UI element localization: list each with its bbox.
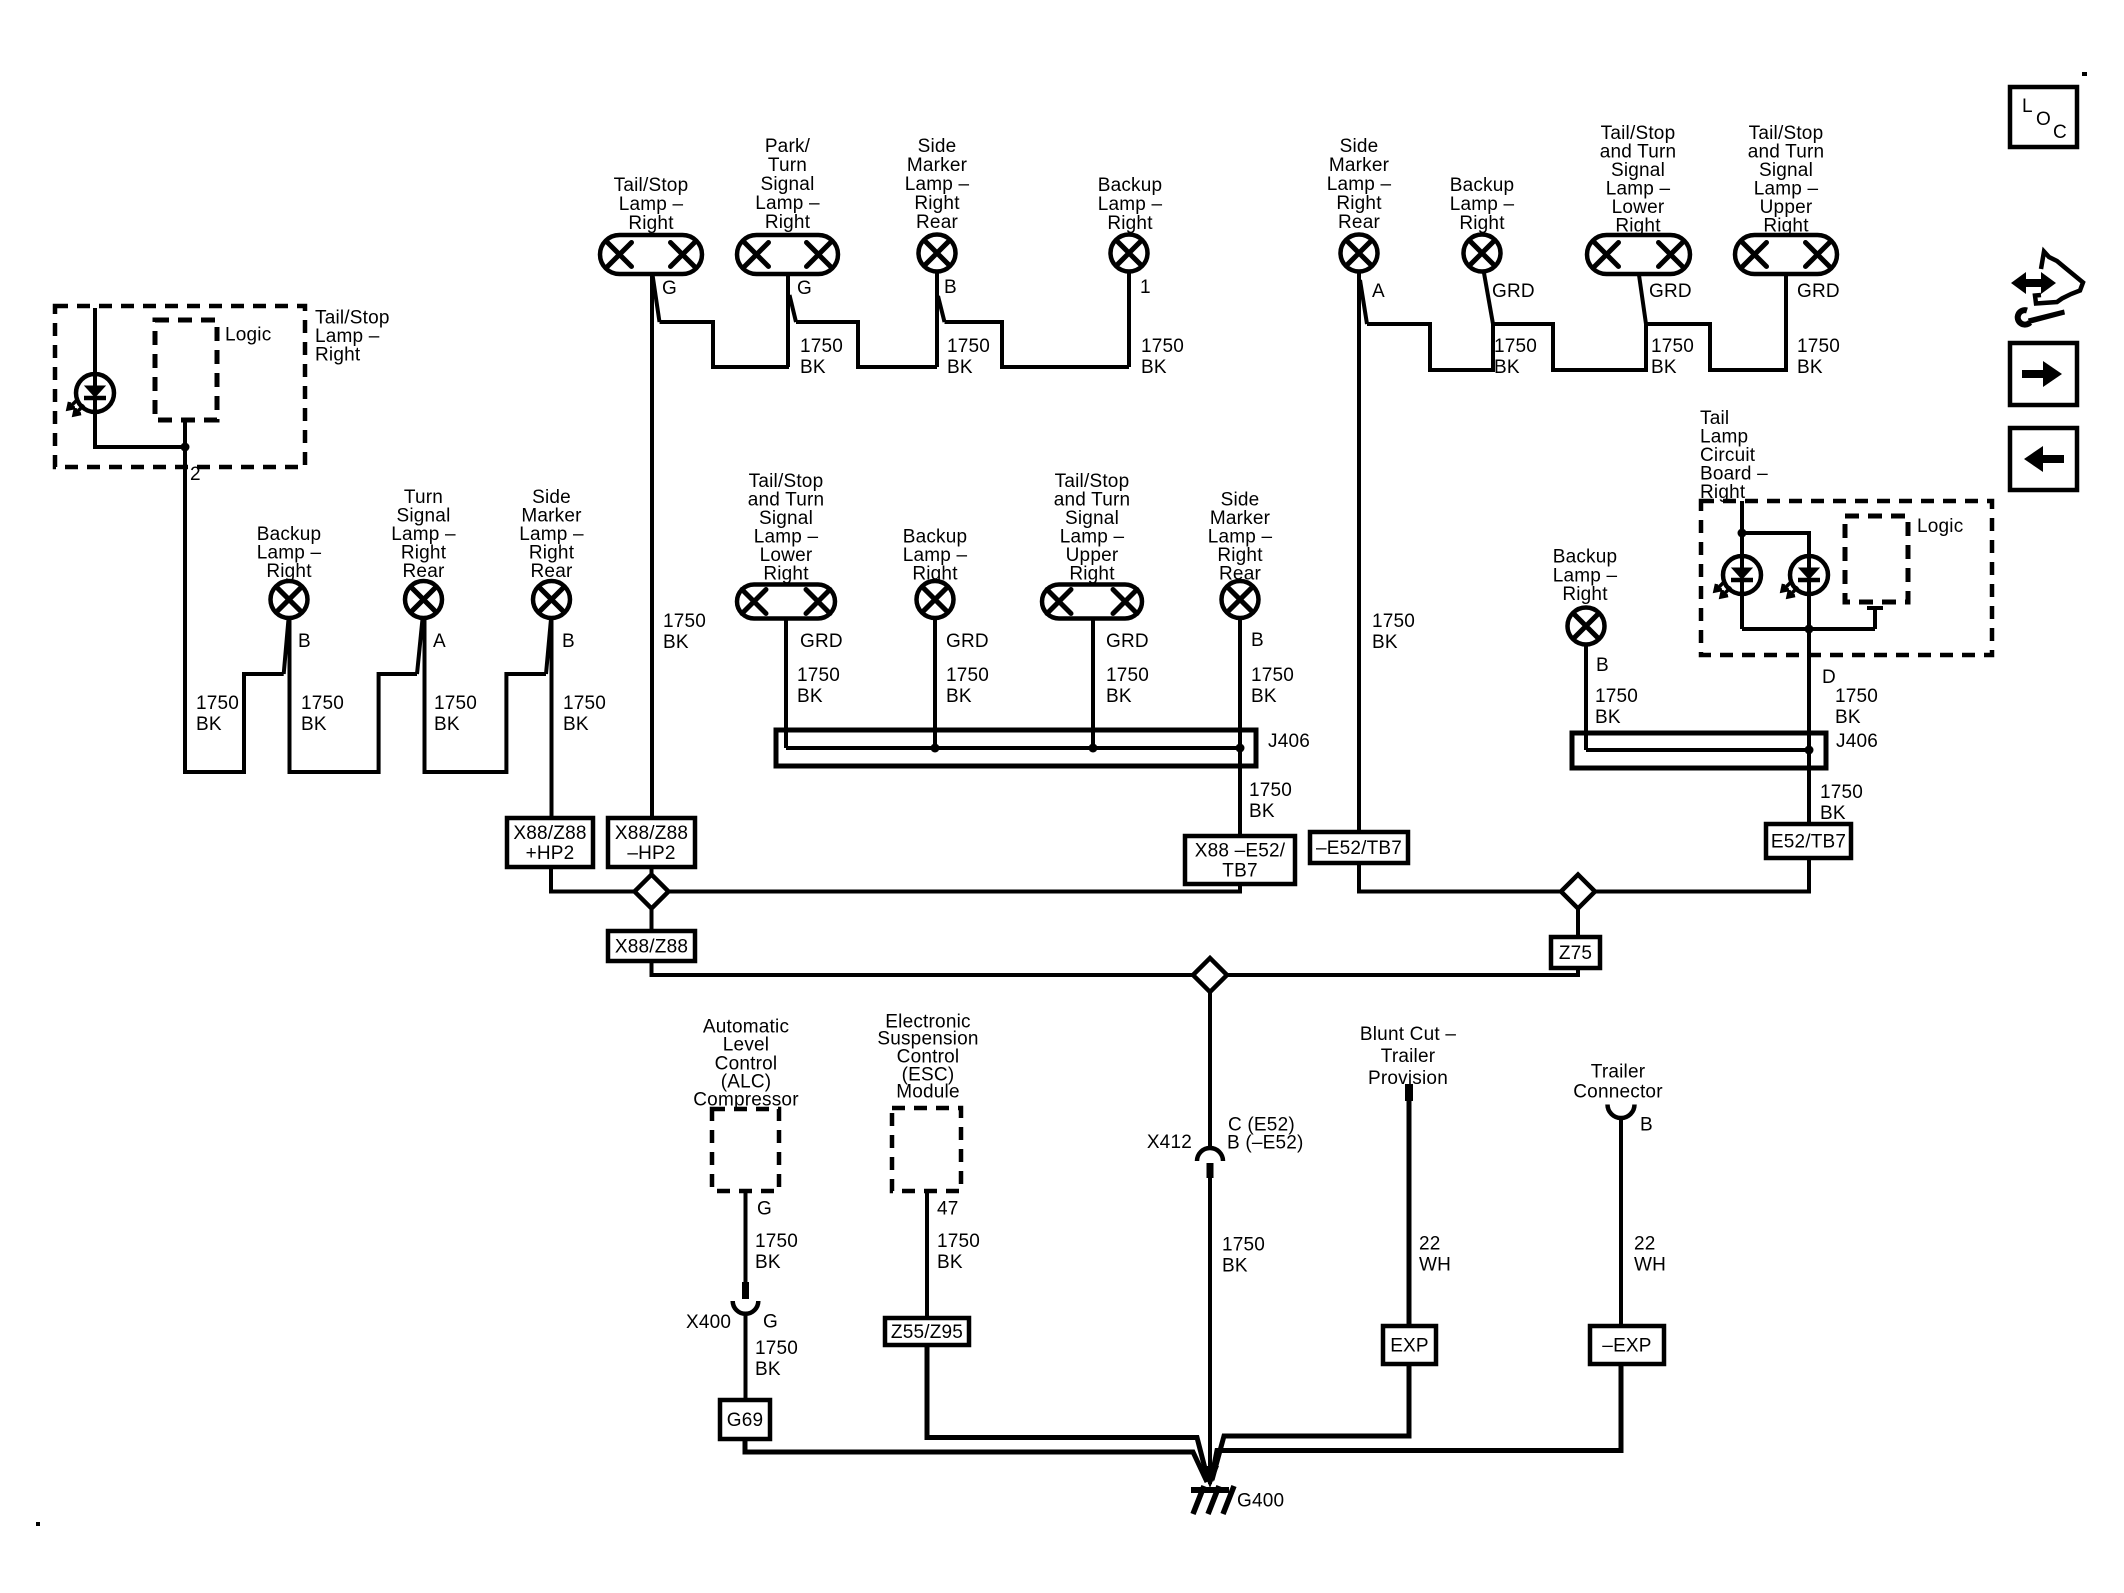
splice diamond splice diamond center — [1193, 958, 1227, 992]
trailer connector socket — [1608, 1105, 1635, 1119]
svg-text:1750: 1750 — [1651, 336, 1694, 357]
svg-text:BK: BK — [1651, 357, 1677, 378]
svg-text:BK: BK — [947, 357, 973, 378]
wire X88/Z88 to bottom bus — [652, 961, 1194, 975]
lamp Backup Lamp - Right (mid right) (circle-X bulb) — [1568, 608, 1605, 645]
lamp Tail/Stop Lamp - Right (dual-filament stadium bulb) — [600, 235, 702, 274]
svg-text:Z55/Z95: Z55/Z95 — [891, 1322, 963, 1343]
label: Tail/Stop and Turn Signal Lamp - Lower Right (top) — [1600, 123, 1677, 237]
svg-text:1750: 1750 — [947, 336, 990, 357]
label: Electronic Suspension Control (ESC) Module — [877, 1012, 978, 1103]
svg-text:BK: BK — [1249, 801, 1275, 822]
svg-text:+HP2: +HP2 — [526, 843, 575, 864]
svg-text:Backup: Backup — [1553, 547, 1618, 568]
label: pin B (-E52) — [1227, 1133, 1304, 1154]
connector box Z75 — [1551, 937, 1600, 968]
svg-text:G400: G400 — [1237, 1491, 1284, 1512]
label: pin GRD — [800, 631, 843, 652]
wire board bottom bus — [1742, 627, 1875, 631]
junction node at logic output — [181, 443, 190, 452]
wire chain 7-8 — [1646, 274, 1786, 370]
wire Z55 ground bus — [927, 1345, 1208, 1480]
lamp Side Marker Lamp - Right Rear (mid) (circle-X bulb) — [1222, 581, 1259, 618]
svg-text:Level: Level — [723, 1035, 769, 1056]
label: pin GRD — [1649, 281, 1692, 302]
wire trailer lead — [1619, 1118, 1623, 1327]
wire gauge/color label 1750 BK (backup mid right) — [1595, 686, 1638, 728]
junction J406 right splice — [1805, 746, 1814, 755]
svg-text:1750: 1750 — [1820, 782, 1863, 803]
wire gauge/color label 1750 BK (below J406 left) — [1249, 780, 1292, 822]
wire center diamond to X412 — [1208, 992, 1212, 1148]
wire Backup-B lead — [290, 618, 418, 772]
svg-text:B: B — [1251, 630, 1264, 651]
wire Backup-GRD lead — [933, 618, 937, 748]
wire gauge/color label 1750 BK (backup mid) — [946, 665, 989, 707]
svg-text:WH: WH — [1419, 1255, 1451, 1276]
blunt cut terminal stub — [1405, 1084, 1413, 1101]
svg-text:Right: Right — [1562, 584, 1608, 605]
svg-text:Z75: Z75 — [1559, 943, 1592, 964]
lamp Tail/Stop and Turn Signal Lamp - Lower Right (top) (dual-filament stadium bulb) — [1587, 235, 1690, 274]
connector box X88 -E52/TB7 — [1185, 836, 1295, 884]
wire gauge/color label 1750 BK (park/turn) — [800, 336, 843, 378]
wire chain jog A — [1360, 280, 1367, 324]
wire TurnSignal-A lead — [425, 618, 547, 772]
wire -HP2 to diamond — [650, 867, 654, 875]
label: pin G — [662, 278, 677, 299]
wire Backup-B lead to J406 right — [1584, 644, 1588, 750]
svg-text:BK: BK — [1494, 357, 1520, 378]
svg-text:Logic: Logic — [225, 325, 271, 346]
svg-text:Right: Right — [1069, 564, 1115, 585]
LOC reference box — [2010, 87, 2077, 147]
svg-text:GRD: GRD — [1797, 281, 1840, 302]
wire chain 6-7 — [1493, 324, 1646, 370]
label: pin GRD — [1106, 631, 1149, 652]
svg-text:1750: 1750 — [1141, 336, 1184, 357]
label: J406 (right) — [1836, 731, 1878, 752]
label: Tail Lamp Circuit Board - Right — [1700, 408, 1768, 503]
svg-text:1750: 1750 — [1106, 665, 1149, 686]
label: Logic (left) — [225, 325, 271, 346]
wire LED1 drop — [1740, 533, 1744, 556]
svg-text:2: 2 — [190, 464, 201, 485]
label: pin B — [1251, 630, 1264, 651]
svg-text:Trailer: Trailer — [1591, 1062, 1646, 1083]
label: Park/Turn Signal Lamp - Right — [755, 136, 820, 233]
diagnostic icon: double arrow, body outline, wrench — [2011, 252, 2083, 325]
svg-text:X400: X400 — [686, 1312, 731, 1333]
svg-text:B: B — [1640, 1115, 1653, 1136]
svg-text:Right: Right — [1336, 193, 1382, 214]
label: pin GRD — [1492, 281, 1535, 302]
svg-text:–HP2: –HP2 — [627, 843, 675, 864]
svg-text:Signal: Signal — [760, 174, 814, 195]
wire gauge/color label 1750 BK (tail/stop) — [663, 611, 706, 653]
wire gauge/color label 1750 BK (lower GRD) — [1651, 336, 1694, 378]
svg-text:Module: Module — [896, 1082, 960, 1103]
wire chain 2-3 — [796, 322, 937, 367]
wire Backup lead — [1127, 271, 1131, 367]
svg-text:BK: BK — [755, 1359, 781, 1380]
label: Side Marker Lamp - Right Rear (mid) — [1208, 490, 1273, 585]
label: X412 — [1147, 1132, 1192, 1153]
splice diamond splice diamond left — [635, 875, 669, 909]
wire E52/TB7 to bus — [1595, 858, 1809, 892]
svg-text:B: B — [562, 631, 575, 652]
wire gauge/color label 22 WH (trailer) — [1634, 1234, 1666, 1276]
LED D1 (tail/stop LED) — [68, 374, 114, 415]
svg-text:BK: BK — [1797, 357, 1823, 378]
in-line connector X400 — [733, 1282, 759, 1314]
connector box -E52/TB7 — [1310, 832, 1408, 863]
svg-text:1750: 1750 — [1249, 780, 1292, 801]
lamp Tail/Stop and Turn Signal Lamp - Upper Right (mid) (dual-filament stadium bulb) — [1042, 585, 1142, 619]
wire SideMarker-A long lead to -E52/TB7 — [1357, 271, 1361, 832]
wire SideMarker-B lead to +HP2 — [550, 618, 554, 818]
label: Side Marker Lamp - Right Rear (right top) — [1327, 136, 1392, 233]
label: pin 2 — [190, 464, 201, 485]
svg-text:B (–E52): B (–E52) — [1227, 1133, 1304, 1154]
wire diag to Lower stadium — [1639, 275, 1646, 324]
svg-text:BK: BK — [1222, 1256, 1248, 1277]
svg-text:BK: BK — [800, 357, 826, 378]
wire gauge/color label 1750 BK (backup B) — [301, 693, 344, 735]
svg-text:1750: 1750 — [1494, 336, 1537, 357]
wire gauge/color label 1750 BK (pin2 wire) — [196, 693, 239, 735]
LED D2 (tail LED 1) — [1715, 556, 1761, 597]
svg-text:Tail/Stop: Tail/Stop — [614, 175, 689, 196]
svg-text:Right: Right — [315, 345, 361, 366]
label: pin B — [298, 631, 311, 652]
label: Turn Signal Lamp - Right Rear — [391, 487, 456, 582]
lamp Backup Lamp - Right (right top) (circle-X bulb) — [1464, 235, 1501, 272]
wire gauge/color label 1750 BK (turn A) — [434, 693, 477, 735]
svg-text:Lamp –: Lamp – — [905, 174, 970, 195]
label: pin GRD — [1797, 281, 1840, 302]
lamp Park/Turn Signal Lamp - Right (dual-filament stadium bulb) — [737, 235, 838, 274]
svg-text:EXP: EXP — [1390, 1336, 1429, 1357]
svg-text:Right: Right — [1459, 213, 1505, 234]
svg-text:1750: 1750 — [663, 611, 706, 632]
ALC Compressor dashed box — [712, 1109, 779, 1191]
svg-text:1750: 1750 — [196, 693, 239, 714]
connector box -EXP — [1590, 1326, 1664, 1364]
svg-text:–E52/TB7: –E52/TB7 — [1316, 838, 1402, 859]
svg-text:1750: 1750 — [1251, 665, 1294, 686]
ground convergence arrowhead — [1201, 1466, 1219, 1488]
wire chain 5-6 — [1367, 324, 1493, 370]
svg-text:C: C — [2053, 122, 2067, 143]
svg-text:Marker: Marker — [1329, 155, 1390, 176]
svg-text:G69: G69 — [727, 1410, 764, 1431]
wire LED1 out — [1740, 594, 1744, 629]
lamp Side Marker Lamp - Right Rear (right top) (circle-X bulb) — [1341, 235, 1378, 272]
svg-text:D: D — [1822, 667, 1836, 688]
svg-text:TB7: TB7 — [1222, 861, 1257, 882]
svg-text:1750: 1750 — [755, 1338, 798, 1359]
svg-text:GRD: GRD — [1649, 281, 1692, 302]
svg-text:Connector: Connector — [1573, 1082, 1663, 1103]
wire LED cathode to node — [95, 411, 185, 447]
logic block inner dashed box (right) — [1845, 516, 1908, 602]
junction J406 splice 2 — [1089, 744, 1098, 753]
wire gauge/color label 1750 BK (side marker) — [947, 336, 990, 378]
wire ESC lead — [925, 1191, 929, 1318]
junction J406 splice 3 — [1236, 744, 1245, 753]
wire D lead to J406 right — [1807, 594, 1811, 824]
svg-text:G: G — [797, 278, 812, 299]
svg-text:Park/: Park/ — [765, 136, 811, 157]
label: pin C (E52) — [1228, 1115, 1295, 1136]
wire gauge/color label 1750 BK (upper mid) — [1106, 665, 1149, 707]
wire SideMarker-B lead through J406 — [1238, 618, 1242, 836]
navigation left-arrow box — [2010, 428, 2077, 490]
svg-text:BK: BK — [755, 1252, 781, 1273]
label: Backup Lamp - Right (top) — [1098, 175, 1163, 234]
svg-text:X88/Z88: X88/Z88 — [615, 823, 688, 844]
label: Backup Lamp - Right (mid right) — [1553, 547, 1618, 606]
svg-text:BK: BK — [937, 1252, 963, 1273]
wire gauge/color label 1750 BK (marker A long) — [1372, 611, 1415, 653]
Tail/Stop Lamp - Right LED module outer dashed box — [55, 306, 305, 467]
label: pin D — [1822, 667, 1836, 688]
wire Lower-GRD lead — [784, 619, 788, 749]
label: pin G (X400) — [763, 1312, 778, 1333]
wire gauge/color label 1750 BK (upper GRD) — [1797, 336, 1840, 378]
label: pin B — [944, 277, 957, 298]
svg-text:WH: WH — [1634, 1255, 1666, 1276]
label: Tail/Stop and Turn Signal Lamp - Upper Right (mid) — [1054, 471, 1131, 585]
wire SideMarker lead — [935, 271, 939, 367]
label: Tail/Stop Lamp - Right (module name) — [315, 308, 390, 366]
svg-text:O: O — [2036, 109, 2051, 130]
svg-text:BK: BK — [1835, 707, 1861, 728]
svg-text:Rear: Rear — [916, 212, 958, 233]
svg-text:1750: 1750 — [1595, 686, 1638, 707]
svg-text:X88 –E52/: X88 –E52/ — [1195, 841, 1286, 862]
wire ALC lead — [744, 1191, 748, 1282]
label: pin A — [1372, 281, 1385, 302]
wire chain jog 3 — [938, 296, 945, 322]
svg-text:1750: 1750 — [800, 336, 843, 357]
svg-text:E52/TB7: E52/TB7 — [1771, 832, 1846, 853]
wire gauge/color label 1750 BK (marker B) — [563, 693, 606, 735]
svg-text:Logic: Logic — [1917, 516, 1963, 537]
wire board bridge — [1742, 533, 1809, 556]
junction board node D — [1805, 625, 1814, 634]
svg-text:GRD: GRD — [946, 631, 989, 652]
label: Blunt Cut - Trailer Provision — [1360, 1024, 1456, 1089]
wire board feed — [1740, 501, 1744, 533]
svg-text:BK: BK — [946, 686, 972, 707]
svg-text:BK: BK — [196, 714, 222, 735]
label: pin GRD — [946, 631, 989, 652]
wire gauge/color label 22 WH (blunt cut) — [1419, 1234, 1451, 1276]
svg-text:J406: J406 — [1836, 731, 1878, 752]
lamp Backup Lamp - Right (top) (circle-X bulb) — [1111, 235, 1148, 272]
wire gauge/color label 1750 BK (backup GRD) — [1494, 336, 1537, 378]
wire gauge/color label 1750 BK (X400-G69) — [755, 1338, 798, 1380]
svg-text:Turn: Turn — [768, 155, 807, 176]
svg-text:G: G — [757, 1199, 772, 1220]
svg-text:1750: 1750 — [755, 1231, 798, 1252]
wire inner bus corner — [784, 733, 788, 748]
lamp Tail/Stop and Turn Signal Lamp - Lower Right (mid) (dual-filament stadium bulb) — [737, 585, 835, 619]
junction J406 splice 1 — [931, 744, 940, 753]
wire +HP2 to bus — [551, 867, 635, 892]
wire diag to Side Marker Lamp — [546, 619, 551, 674]
connector box G69 — [720, 1400, 770, 1439]
svg-text:Backup: Backup — [1098, 175, 1163, 196]
logic stub cap — [1867, 606, 1883, 610]
wire gauge/color label 1750 BK (ESC) — [937, 1231, 980, 1273]
svg-text:1750: 1750 — [1222, 1235, 1265, 1256]
svg-text:–EXP: –EXP — [1602, 1336, 1651, 1357]
splice pack J406 (left) — [776, 730, 1256, 766]
label: G400 — [1237, 1491, 1284, 1512]
wire blunt cut lead — [1407, 1100, 1412, 1326]
label: pin 47 — [937, 1199, 959, 1220]
svg-text:BK: BK — [1820, 803, 1846, 824]
svg-text:BK: BK — [1106, 686, 1132, 707]
svg-text:J406: J406 — [1268, 731, 1310, 752]
wire diag to Turn Signal Lamp — [417, 619, 423, 674]
lamp Side Marker Lamp - Right Rear (left) (circle-X bulb) — [533, 581, 570, 618]
label: Side Marker Lamp - Right Rear (left) — [519, 487, 584, 582]
wire trailer ground bus — [1211, 1364, 1621, 1481]
wire chain jog 2 — [790, 295, 797, 322]
wire bus to X88-E52/TB7 — [669, 884, 1241, 892]
svg-text:GRD: GRD — [1106, 631, 1149, 652]
wire gauge/color label 1750 BK (marker mid) — [1251, 665, 1294, 707]
svg-text:Trailer: Trailer — [1381, 1046, 1436, 1067]
lamp Tail/Stop and Turn Signal Lamp - Upper Right (top) (dual-filament stadium bulb) — [1735, 235, 1837, 274]
wire gauge/color label 1750 BK (lower mid) — [797, 665, 840, 707]
label: pin G (ALC) — [757, 1199, 772, 1220]
label: Backup Lamp - Right (left) — [257, 524, 322, 582]
svg-text:Side: Side — [918, 136, 957, 157]
svg-text:BK: BK — [797, 686, 823, 707]
svg-text:BK: BK — [1141, 357, 1167, 378]
svg-text:BK: BK — [301, 714, 327, 735]
wire gauge/color label 1750 BK (below J406 right) — [1820, 782, 1863, 824]
wire gauge/color label 1750 BK (D wire) — [1835, 686, 1878, 728]
connector box Z55/Z95 — [885, 1318, 969, 1345]
wire EXP ground bus — [1212, 1364, 1409, 1480]
lamp Backup Lamp - Right (left) (circle-X bulb) — [271, 581, 308, 618]
wire gauge/color label 1750 BK (backup 1) — [1141, 336, 1184, 378]
ground symbol G400 — [1191, 1486, 1234, 1514]
label: pin 1 — [1140, 277, 1151, 298]
label: pin A — [433, 631, 446, 652]
svg-text:L: L — [2022, 96, 2033, 117]
label: Tail/Stop and Turn Signal Lamp - Upper Right (top) — [1748, 123, 1825, 237]
ESC Module dashed box — [892, 1108, 961, 1191]
wire diamond to X88/Z88 box — [650, 909, 654, 932]
connector box X88/Z88 +HP2 — [507, 818, 593, 867]
svg-text:Lamp –: Lamp – — [755, 193, 820, 214]
label: Trailer Connector — [1573, 1062, 1663, 1103]
wire gauge/color label 1750 BK (ALC) — [755, 1231, 798, 1273]
label: pin B — [562, 631, 575, 652]
wire LED top lead — [93, 308, 97, 375]
wire X400 to G69 — [744, 1314, 748, 1400]
svg-text:BK: BK — [663, 632, 689, 653]
svg-text:1: 1 — [1140, 277, 1151, 298]
svg-text:GRD: GRD — [1492, 281, 1535, 302]
svg-text:Backup: Backup — [1450, 175, 1515, 196]
label: Tail/Stop and Turn Signal Lamp - Lower Right (mid) — [748, 471, 825, 585]
svg-text:1750: 1750 — [1372, 611, 1415, 632]
label: pin G — [797, 278, 812, 299]
wire Upper-GRD lead — [1091, 619, 1095, 749]
svg-text:Right: Right — [1107, 213, 1153, 234]
junction board node A — [1738, 529, 1747, 538]
svg-text:GRD: GRD — [800, 631, 843, 652]
wire -E52/TB7 to bus — [1359, 863, 1561, 892]
lamp Side Marker Lamp - Right Rear (top) (circle-X bulb) — [919, 235, 956, 272]
speck bottom left — [36, 1522, 40, 1526]
label: pin B — [1596, 655, 1609, 676]
svg-text:1750: 1750 — [563, 693, 606, 714]
lamp Backup Lamp - Right (mid) (circle-X bulb) — [917, 581, 954, 618]
logic block inner dashed box — [155, 320, 217, 420]
svg-text:X412: X412 — [1147, 1132, 1192, 1153]
svg-text:Side: Side — [1340, 136, 1379, 157]
svg-text:Lamp –: Lamp – — [1327, 174, 1392, 195]
svg-text:B: B — [944, 277, 957, 298]
connector box EXP — [1383, 1326, 1436, 1364]
svg-text:47: 47 — [937, 1199, 959, 1220]
label: Backup Lamp - Right (mid) — [903, 527, 968, 585]
wire X412 to ground — [1208, 1178, 1212, 1484]
svg-text:BK: BK — [1372, 632, 1398, 653]
Tail Lamp Circuit Board outer dashed box — [1701, 501, 1992, 655]
wire chain 1-2 — [660, 322, 790, 367]
wire Park/Turn lead — [786, 274, 790, 367]
svg-text:G: G — [662, 278, 677, 299]
svg-text:1750: 1750 — [946, 665, 989, 686]
svg-text:G: G — [763, 1312, 778, 1333]
wire chain 3-4 — [945, 322, 1130, 367]
wire diag to Backup GRD — [1484, 273, 1493, 324]
svg-text:Rear: Rear — [1338, 212, 1380, 233]
svg-text:Lamp –: Lamp – — [1098, 194, 1163, 215]
label: Backup Lamp - Right (right top) — [1450, 175, 1515, 234]
svg-text:B: B — [1596, 655, 1609, 676]
svg-text:1750: 1750 — [434, 693, 477, 714]
svg-text:X88/Z88: X88/Z88 — [615, 937, 688, 958]
svg-text:Right: Right — [763, 564, 809, 585]
wire gauge/color label 1750 BK (X412) — [1222, 1235, 1265, 1277]
wire G69 ground bus — [745, 1439, 1207, 1482]
splice diamond splice diamond right — [1561, 875, 1595, 909]
label: Logic (right) — [1917, 516, 1963, 537]
speck top right — [2082, 72, 2087, 76]
label: Side Marker Lamp - Right Rear (top) — [905, 136, 970, 233]
label: X400 — [686, 1312, 731, 1333]
svg-text:1750: 1750 — [1835, 686, 1878, 707]
svg-text:A: A — [433, 631, 446, 652]
wire diamond to Z75 — [1576, 909, 1580, 938]
svg-text:1750: 1750 — [937, 1231, 980, 1252]
splice pack J406 (right) — [1572, 733, 1826, 768]
wire logic stub — [1873, 608, 1877, 629]
navigation right-arrow box — [2010, 343, 2077, 405]
LED D3 (tail LED 2) — [1782, 556, 1828, 597]
